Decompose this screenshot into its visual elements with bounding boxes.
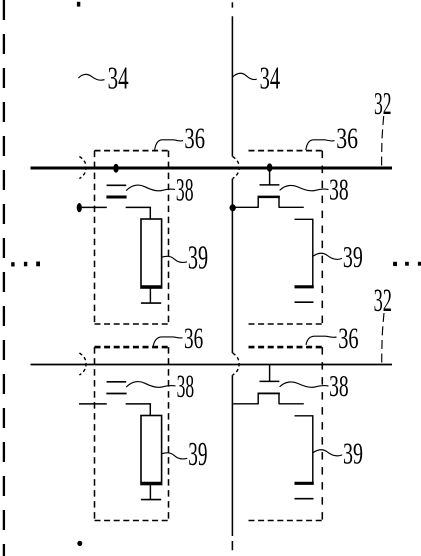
- leader line for label 39 row 2 right: [313, 450, 342, 456]
- transistor 38 right cell (row 2): gate lead from word line: [269, 365, 271, 382]
- transistor 38 right cell (row 1): raised channel bump: [258, 197, 280, 208]
- svg-text:39: 39: [343, 435, 363, 470]
- leader line for label 38 row 1 right: [280, 185, 329, 190]
- node: junction dot right source stub on bit line 34: [230, 204, 236, 211]
- wire: resistor bottom lead (row 1): [149, 288, 151, 303]
- svg-text:39: 39: [343, 239, 363, 274]
- wire: word line 32 (row 2): [31, 364, 393, 366]
- node: junction dot left source stub on implied bit line: [77, 203, 82, 212]
- svg-text:39: 39: [188, 436, 207, 473]
- ground bar under left resistor (row 2): [141, 499, 161, 501]
- leader line for label 39 row 1 right: [313, 253, 342, 259]
- storage element 39 right cell (row 1): lower counter plate: [295, 301, 314, 303]
- svg-text:38: 38: [177, 369, 195, 405]
- wire: resistor bottom lead (row 2): [149, 485, 151, 500]
- transistor 38 left cell (row 1): gate electrode bar: [107, 184, 127, 186]
- wire: source stub to left implied bit line (row 2): [79, 403, 107, 405]
- transistor 38 right cell (row 1): gate lead from word line: [269, 168, 271, 185]
- storage element 39 right cell (row 1): bracket-shaped plate: [295, 219, 313, 288]
- resistor element 39 left cell (row 2): [141, 416, 162, 485]
- svg-text:36: 36: [184, 122, 205, 155]
- leader line for label 32 row 1: [382, 116, 384, 166]
- leader line for label 38 row 1 left: [126, 185, 175, 191]
- transistor 38 left cell (row 1): channel/oxide bar: [106, 196, 126, 199]
- cell box 36 right (row 1), dashed outline (open left side): [249, 151, 323, 324]
- wire: word line 32 (row 1): [31, 167, 393, 170]
- svg-text:32: 32: [374, 283, 392, 319]
- wire: bit line 34 (vertical), drawn with end dashes and crossover gaps: [231, 2, 233, 550]
- svg-text:34: 34: [260, 59, 281, 95]
- transistor 38 right cell (row 2): gate bar: [260, 380, 280, 382]
- svg-text:32: 32: [374, 85, 392, 121]
- leader line for label 38 row 2 left: [126, 382, 175, 388]
- wire: dashed crossover hop of implied left bit line over word line (row 2): [79, 353, 86, 375]
- svg-text:38: 38: [176, 173, 194, 209]
- svg-text:38: 38: [329, 368, 349, 403]
- ellipsis dots (array continues left): [11, 262, 40, 267]
- leader line for label 39 row 2 left: [162, 453, 188, 459]
- storage element 39 right cell (row 2): bracket-shaped plate: [295, 415, 313, 484]
- node: junction dot word line / left cell gate: [113, 164, 118, 173]
- transistor 38 right cell (row 2): raised channel bump: [258, 393, 280, 404]
- leader line for label 39 row 1 left: [162, 256, 187, 262]
- svg-text:38: 38: [329, 171, 349, 206]
- wire: drain stub of right transistor (row 2): [279, 403, 304, 405]
- leader line for label 38 row 2 right: [280, 382, 329, 387]
- node: bottom dot of implied left bit line: [77, 541, 82, 546]
- ellipsis dots (array continues right): [393, 262, 421, 266]
- svg-text:39: 39: [188, 239, 208, 276]
- svg-text:36: 36: [184, 322, 203, 355]
- wire: dashed crossover hop of bit line 34 over word line (row 1): [233, 157, 240, 179]
- wire: drain stub of left transistor (row 2): [126, 403, 151, 415]
- wire: source stub from bit line to right transistor (row 2): [233, 403, 258, 405]
- transistor 38 left cell (row 2): channel/oxide bar: [106, 393, 126, 395]
- cell box 36 left (row 1), dashed outline: [95, 151, 169, 324]
- wire: source stub from bit line to right transistor (row 1): [234, 206, 258, 208]
- resistor element 39 left cell (row 1): [141, 219, 162, 288]
- node: junction dot word line / right cell gate lead: [267, 163, 273, 171]
- leader line for label 34 right: [233, 73, 257, 79]
- leader line for label 36 row 2 right: [306, 336, 337, 345]
- wire: dashed crossover hop of bit line 34 over word line (row 2): [233, 353, 240, 375]
- svg-text:36: 36: [336, 122, 358, 155]
- cell box 36 right (row 2), dashed outline (open left side): [249, 347, 323, 520]
- storage element 39 right cell (row 2): lower counter plate: [295, 498, 314, 500]
- ground bar under left resistor (row 1): [141, 302, 161, 304]
- wire: drain stub of right transistor (row 1): [279, 206, 304, 208]
- leader line for label 36 row 1 right: [306, 140, 335, 150]
- transistor 38 right cell (row 1): gate bar: [260, 184, 280, 186]
- cell box 36 left (row 2), dashed outline: [95, 347, 169, 520]
- svg-text:36: 36: [338, 322, 358, 355]
- svg-text:34: 34: [108, 59, 129, 95]
- leader line for label 32 row 2: [382, 313, 384, 364]
- leader line for label 36 row 1 left: [155, 140, 183, 150]
- wire: dashed crossover hop of implied left bit line over word line (row 1): [79, 157, 86, 179]
- leader line for label 34 left: [78, 74, 104, 80]
- leader line for label 36 row 2 left: [153, 337, 183, 347]
- figure boundary: left dashed border: [3, 0, 5, 556]
- wire: drain stub of left transistor (row 1): [126, 207, 151, 219]
- wire: source stub to left implied bit line (row 1): [82, 206, 107, 208]
- transistor 38 left cell (row 2): gate electrode bar: [107, 381, 127, 383]
- node: top tick of implied left bit line: [77, 2, 80, 7]
